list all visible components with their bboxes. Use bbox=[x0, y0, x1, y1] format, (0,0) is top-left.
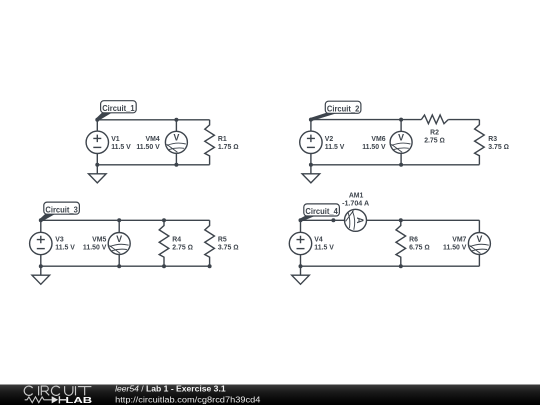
svg-text:11.50 V: 11.50 V bbox=[362, 144, 386, 151]
junction C4 R6 bottom bbox=[399, 264, 403, 268]
svg-text:11.5 V: 11.5 V bbox=[55, 244, 75, 251]
voltage source V2 bbox=[300, 120, 322, 165]
junction C3 R5 bottom bbox=[208, 264, 212, 268]
svg-text:R3: R3 bbox=[488, 136, 497, 143]
svg-text:11.5 V: 11.5 V bbox=[314, 244, 334, 251]
junction C4 wire split left of AM1 bbox=[331, 218, 335, 222]
logo CIRCUIT text bbox=[24, 386, 91, 395]
svg-text:V2: V2 bbox=[325, 136, 334, 143]
wire bottom C2 bbox=[311, 164, 480, 166]
svg-text:R5: R5 bbox=[218, 237, 227, 244]
svg-text:V: V bbox=[173, 133, 179, 143]
svg-text:VM6: VM6 bbox=[371, 136, 385, 143]
svg-text:2.75 Ω: 2.75 Ω bbox=[424, 137, 445, 144]
junction C3 VM5 bottom bbox=[117, 264, 121, 268]
voltmeter VM6 bbox=[390, 120, 412, 165]
junction C1 top flag node bbox=[95, 118, 99, 122]
ground C3 bbox=[32, 266, 50, 284]
voltage source V3 bbox=[30, 220, 52, 266]
footer bar background bbox=[0, 385, 540, 405]
svg-text:3.75 Ω: 3.75 Ω bbox=[218, 244, 239, 251]
resistor R1 bbox=[205, 120, 215, 165]
wire top C4 left bbox=[301, 219, 345, 221]
logo resistor squiggle bbox=[25, 397, 53, 403]
svg-text:V1: V1 bbox=[111, 136, 120, 143]
voltmeter VM5 bbox=[108, 220, 130, 266]
svg-text:11.5 V: 11.5 V bbox=[111, 144, 131, 151]
ground C2 bbox=[302, 165, 320, 183]
svg-text:V: V bbox=[476, 234, 482, 244]
resistor R2 bbox=[421, 115, 448, 124]
junction C1 VM4 bottom bbox=[174, 163, 178, 167]
svg-text:V: V bbox=[398, 133, 404, 143]
wire bottom C3 bbox=[41, 265, 210, 267]
ground C4 bbox=[292, 266, 310, 284]
junction C4 flag node bbox=[299, 218, 303, 222]
svg-text:VM4: VM4 bbox=[146, 136, 160, 143]
svg-text:R2: R2 bbox=[430, 130, 439, 137]
voltage source V4 bbox=[289, 220, 311, 266]
wire top C1 bbox=[97, 119, 209, 121]
resistor R5 bbox=[205, 220, 215, 266]
svg-text:AM1: AM1 bbox=[349, 193, 364, 200]
svg-text:R4: R4 bbox=[172, 237, 181, 244]
svg-text:Circuit_2: Circuit_2 bbox=[327, 103, 360, 113]
voltmeter VM7 bbox=[468, 220, 490, 266]
svg-text:VM7: VM7 bbox=[452, 237, 466, 244]
svg-text:11.50 V: 11.50 V bbox=[443, 244, 467, 251]
svg-text:3.75 Ω: 3.75 Ω bbox=[488, 144, 509, 151]
svg-text:11.5 V: 11.5 V bbox=[325, 144, 345, 151]
wire top C2 right bbox=[448, 119, 479, 121]
flag Circuit_4 bbox=[300, 204, 340, 222]
svg-text:http://circuitlab.com/cg8rcd7h: http://circuitlab.com/cg8rcd7h39cd4 bbox=[115, 394, 261, 404]
junction C1 VM4 top bbox=[174, 118, 178, 122]
flag Circuit_2 bbox=[310, 101, 361, 121]
svg-text:V: V bbox=[116, 234, 122, 244]
resistor R4 bbox=[159, 220, 169, 266]
svg-text:2.75 Ω: 2.75 Ω bbox=[172, 244, 193, 251]
wire bottom C4 bbox=[301, 265, 480, 267]
wire top C2 left bbox=[311, 119, 421, 121]
svg-text:A: A bbox=[355, 217, 365, 224]
voltage source V1 bbox=[86, 120, 108, 165]
junction C4 R6 top bbox=[399, 218, 403, 222]
svg-text:V3: V3 bbox=[55, 237, 64, 244]
ammeter AM1 bbox=[345, 209, 367, 231]
voltmeter VM4 bbox=[165, 120, 187, 165]
svg-text:Circuit_4: Circuit_4 bbox=[305, 206, 338, 216]
svg-text:6.75 Ω: 6.75 Ω bbox=[409, 244, 430, 251]
svg-text:LAB: LAB bbox=[65, 395, 92, 405]
resistor R6 bbox=[396, 220, 406, 266]
svg-text:11.50 V: 11.50 V bbox=[83, 244, 107, 251]
resistor R3 bbox=[475, 120, 485, 165]
junction C1 V1 bottom bbox=[95, 163, 99, 167]
junction C3 R4 top bbox=[162, 218, 166, 222]
junction C4 V4 bottom bbox=[299, 264, 303, 268]
junction C2 VM6 bottom bbox=[399, 163, 403, 167]
ground C1 bbox=[89, 165, 107, 183]
svg-text:VM5: VM5 bbox=[92, 237, 106, 244]
svg-text:R1: R1 bbox=[218, 136, 227, 143]
flag Circuit_3 bbox=[40, 202, 80, 221]
svg-text:leer54 / Lab 1 - Exercise 3.1: leer54 / Lab 1 - Exercise 3.1 bbox=[115, 385, 226, 394]
wire top C4 right bbox=[367, 219, 480, 221]
wire bottom C1 bbox=[97, 164, 209, 166]
svg-text:V4: V4 bbox=[314, 237, 323, 244]
svg-text:1.75 Ω: 1.75 Ω bbox=[218, 144, 239, 151]
junction C3 V3 bottom bbox=[39, 264, 43, 268]
wire top C3 bbox=[41, 219, 210, 221]
junction C2 flag node bbox=[309, 118, 313, 122]
junction C3 R4 bottom bbox=[162, 264, 166, 268]
junction C2 V2 bottom bbox=[309, 163, 313, 167]
svg-text:Circuit_3: Circuit_3 bbox=[45, 204, 78, 214]
svg-text:Circuit_1: Circuit_1 bbox=[102, 103, 135, 113]
flag Circuit_1 bbox=[96, 101, 136, 121]
logo diode bar bbox=[59, 396, 66, 403]
junction C3 VM5 top bbox=[117, 218, 121, 222]
svg-text:-1.704 A: -1.704 A bbox=[342, 200, 369, 207]
junction C2 VM6 top bbox=[399, 118, 403, 122]
svg-text:11.50 V: 11.50 V bbox=[136, 144, 160, 151]
junction C3 flag node bbox=[39, 218, 43, 222]
svg-text:R6: R6 bbox=[409, 237, 418, 244]
logo diode arrow bbox=[52, 396, 59, 403]
